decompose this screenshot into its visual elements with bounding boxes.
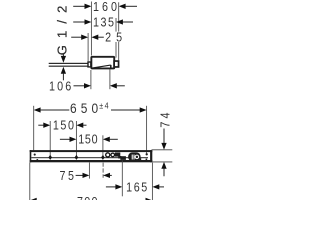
- right nub connector: [114, 61, 118, 67]
- dimension 150 second: [60, 132, 118, 147]
- wire extension line x=102.9: [102, 135, 104, 157]
- left nub connector: [88, 62, 91, 67]
- wire extension line x=29.8 (700 left): [29, 163, 31, 201]
- marker bump: [36, 159, 38, 161]
- wire extension line front face x=91.4: [90, 2, 92, 56]
- wire extension line x=146.6 (650 right): [146, 106, 148, 154]
- marker diamond x=102.9: [101, 155, 105, 160]
- wire extension line x=118.7: [118, 2, 120, 60]
- wire extension line x=76.4: [75, 121, 77, 157]
- marker diamond x=50.2: [48, 155, 52, 160]
- svg-text:160: 160: [93, 0, 117, 14]
- svg-text:650: 650: [70, 100, 98, 116]
- outlet notch: [120, 156, 126, 160]
- body side view: [91, 57, 114, 69]
- svg-text:±4: ±4: [99, 101, 109, 111]
- bracket detail: [140, 158, 142, 161]
- diagonal inside body: [92, 65, 111, 68]
- dimension 74: [158, 112, 173, 176]
- dimension 150 first: [38, 117, 86, 132]
- svg-text:165: 165: [126, 180, 147, 195]
- svg-text:700: 700: [77, 194, 98, 200]
- holder ring 2: [111, 153, 115, 157]
- wire extension line x=33.7 (650 left): [33, 106, 35, 151]
- wire extension line x=90.9 below body: [90, 70, 92, 89]
- bar bottom edge: [30, 160, 153, 162]
- bar left edge: [30, 150, 32, 162]
- marker dot left: [34, 154, 36, 156]
- dimension 75: [59, 168, 111, 183]
- wire extension line x=116: [115, 18, 117, 58]
- holder ring 1: [106, 153, 110, 157]
- step line inside body: [110, 65, 112, 68]
- bar inner rail line: [31, 157, 148, 158]
- wire 74 top line: [152, 149, 173, 151]
- svg-text:150: 150: [78, 132, 98, 147]
- thermostat handle: [128, 152, 141, 161]
- slider lump: [115, 153, 121, 159]
- dimension 650 +/-4: [34, 100, 147, 116]
- bar right edge: [150, 150, 152, 162]
- dimension 106: [49, 78, 125, 93]
- wire extension line x=122.3 (165 left): [121, 161, 123, 197]
- svg-text:135: 135: [93, 15, 114, 30]
- marker diamond x=76.4: [75, 155, 79, 160]
- wire extension line x=152.4 (700/165 right): [151, 163, 153, 200]
- pipe G1/2 bottom line: [49, 66, 88, 67]
- wire extension line x=88.1: [87, 33, 89, 61]
- dimension 700 (clipped at bottom): [30, 194, 153, 209]
- dimension 160: [73, 0, 137, 14]
- marker dot right: [146, 153, 148, 155]
- bar top edge: [30, 150, 153, 152]
- svg-text:150: 150: [53, 117, 75, 132]
- dimension 25: [71, 29, 123, 44]
- svg-text:106: 106: [49, 78, 72, 93]
- pipe G1/2 top line: [49, 63, 88, 64]
- wire centerline x=103.1 dashed: [102, 163, 104, 178]
- wire extension line x=89.4 (75 left): [88, 163, 90, 179]
- dimension 135: [73, 15, 133, 30]
- wire extension line x=109.9 below body: [109, 69, 111, 89]
- dimension pipe diameter arrows: [61, 54, 66, 81]
- wire extension line x=50.2: [49, 121, 51, 157]
- wire 74 bottom line: [153, 161, 173, 163]
- dimension 165: [106, 180, 164, 195]
